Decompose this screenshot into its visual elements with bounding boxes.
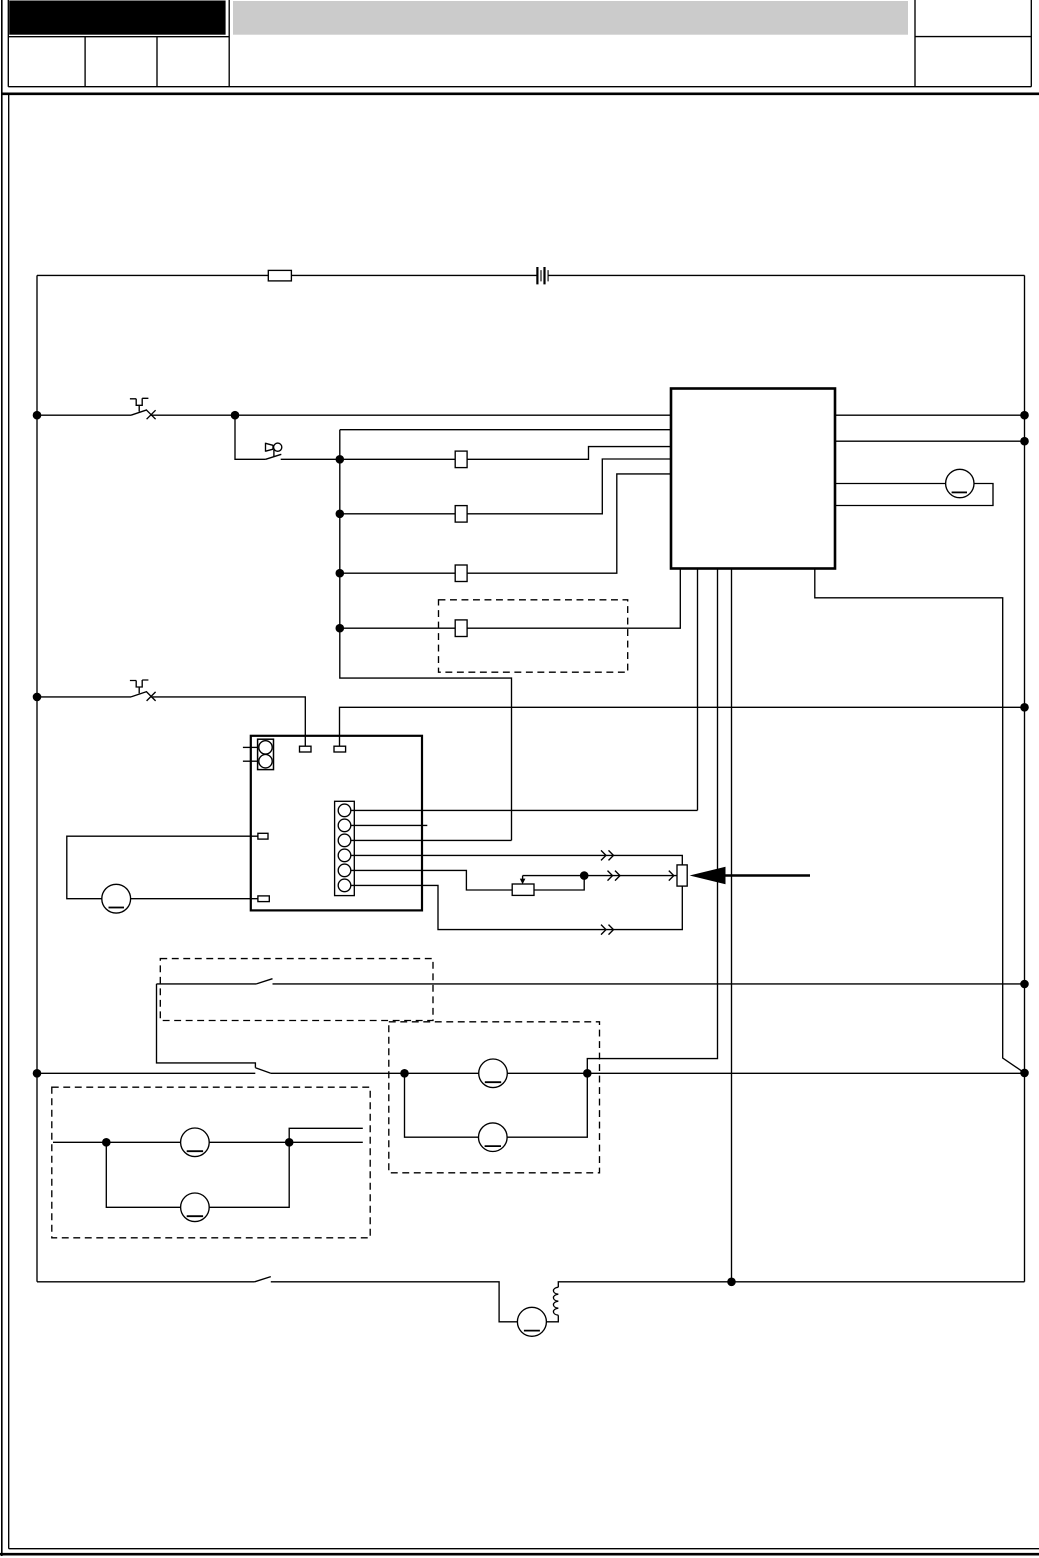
wire: horn switch to fuse bus — [281, 458, 340, 460]
wire branch 4 to ECU bottom — [340, 569, 681, 629]
wire: ECU to indicator — [835, 483, 946, 485]
wire pin3 to fuse bus — [351, 839, 512, 841]
chevron on node wire — [608, 871, 621, 881]
junction dot (339.8,513.8) — [336, 510, 345, 519]
fuse F1 — [268, 270, 291, 281]
left tab T4 — [258, 896, 269, 902]
wire: ECU jog to right bus — [815, 569, 1025, 1073]
wire: relay to lamp switch pivot — [157, 984, 256, 1068]
relay contact blade — [256, 979, 272, 984]
junction dot (1024.5,441.2) — [1020, 437, 1029, 446]
title block black banner — [9, 1, 225, 35]
wire branch 3 to ECU pin 5 — [340, 474, 671, 573]
wire: ECU pin to motor line — [731, 569, 733, 1282]
stub wire 1 — [243, 746, 258, 748]
pointer arrow line — [726, 874, 811, 877]
wire: indicator return loop — [835, 484, 993, 506]
header table grid — [8, 0, 1031, 87]
page outer border bottom — [0, 1553, 1039, 1556]
junction dot (235,415.2) — [231, 411, 240, 420]
fuse F4 — [455, 565, 467, 582]
junction dot (339.8,459.3) — [336, 455, 345, 464]
page outer border left — [1, 0, 3, 1556]
junction dot (1024.5,984) — [1020, 980, 1029, 989]
fuse F2 — [455, 451, 467, 468]
fuse F3 — [455, 506, 467, 522]
stub wire 2 — [243, 760, 258, 762]
pilot assembly box — [258, 739, 274, 769]
wire: head lamp feed — [53, 1141, 363, 1143]
dashed fuse enclosure — [439, 600, 628, 672]
junction dot (587.3,1073.3) — [583, 1069, 592, 1078]
circuit breaker CB2 — [130, 680, 156, 701]
connector pin 5 — [338, 864, 351, 877]
left bus wire — [36, 275, 38, 1281]
junction dot (404.5,1073.3) — [400, 1069, 409, 1078]
junction dot (584.2,875.6) — [580, 871, 589, 880]
battery B1 — [537, 267, 548, 284]
wire branch 1 to ECU pin 3 — [340, 447, 671, 460]
wire: left bus to breaker CB1 — [37, 414, 131, 416]
wire: ECU pin to control row 1 — [697, 569, 699, 811]
connector strip — [335, 801, 355, 895]
pilot circle 2 — [259, 755, 272, 768]
wire: head lamp jog — [289, 1128, 363, 1142]
junction dot (37,415.2) — [33, 411, 42, 420]
left tab T3 — [258, 833, 268, 839]
head lamp 2 — [181, 1193, 210, 1222]
tail lamp 1 — [479, 1059, 508, 1088]
drawing frame left — [8, 94, 10, 1549]
pointer arrow head — [690, 867, 726, 884]
terminal tab T2 — [334, 746, 346, 752]
wire head lamp branch — [106, 1142, 289, 1207]
chevron on pin6 wire — [601, 925, 614, 935]
wire: bus to lamp switch contact — [37, 1072, 255, 1074]
wire: junction to ECU pin 1 — [235, 414, 671, 416]
drawing frame bottom — [9, 1548, 1039, 1550]
wire: tail lamps to right bus — [587, 1072, 1024, 1074]
wire: CB1 to junction — [151, 414, 235, 416]
connector pin 1 — [338, 804, 351, 817]
tail lamp dashed box — [389, 1022, 600, 1173]
wire: CB2 to control module tab1 — [151, 697, 305, 746]
wire: ECU to right bus A — [835, 414, 1025, 416]
wiper wire — [523, 876, 585, 880]
wire: resistor to node — [534, 876, 584, 890]
junction dot (339.8,628.2) — [336, 624, 345, 633]
wire: left bus to breaker CB2 — [37, 696, 131, 698]
wire through tail lamp 1 — [405, 1072, 588, 1074]
wire: coil to right bus — [558, 1282, 1024, 1287]
control module U2 — [251, 736, 422, 911]
wire branch 2 to ECU pin 4 — [340, 459, 671, 514]
indicator lamp L1 — [946, 469, 974, 497]
junction dot (106.3,1142.3) — [102, 1138, 111, 1147]
chevron on pin4 wire — [601, 850, 614, 860]
wire pin2 stub — [351, 824, 428, 826]
title block gray banner — [233, 1, 908, 35]
connector pin 4 — [338, 849, 351, 862]
wire: motor to tab T4 — [131, 898, 258, 900]
connector pin 2 — [338, 819, 351, 832]
drawing frame top — [2, 93, 1039, 96]
wire: relay output to right bus — [273, 983, 1025, 985]
wire tail lamp branch — [405, 1073, 588, 1137]
wire: bus top to ECU pin 2 — [340, 429, 671, 431]
fan switch blade — [255, 1277, 271, 1282]
variable resistor R1 — [512, 884, 534, 895]
junction dot (1024.5,415.2) — [1020, 411, 1029, 420]
wire pin6 to connector J1 — [351, 885, 683, 929]
connector pin 6 — [338, 879, 351, 892]
circuit breaker CB1 — [130, 398, 156, 419]
wiper arrowhead — [520, 879, 526, 885]
wire: tab2 net to right bus — [340, 707, 1025, 746]
wire: motor to coil — [546, 1315, 558, 1322]
terminal tab T1 — [300, 746, 312, 752]
wire pin4 to connector J1 — [351, 855, 683, 865]
ECU module U1 — [671, 389, 835, 569]
junction dot (1024.5,1072.9) — [1020, 1069, 1029, 1078]
wire: switch to fan motor — [271, 1282, 518, 1322]
chevron at connector J1 — [669, 871, 674, 881]
top supply wire left of battery — [37, 274, 537, 276]
washer motor M1 — [102, 884, 131, 913]
wire: relay feed — [157, 983, 257, 985]
connector pin 3 — [338, 834, 351, 847]
junction dot (339.8,573.2) — [336, 569, 345, 578]
wire pin1 to ECU — [351, 809, 698, 811]
wire: lamp switch to tail lamps — [270, 1072, 404, 1074]
wire: washer motor loop — [67, 836, 258, 899]
pilot circle 1 — [259, 741, 272, 754]
horn switch SW1 — [266, 443, 282, 460]
junction dot (37,696.9) — [33, 693, 42, 702]
junction dot (37,1073.3) — [33, 1069, 42, 1078]
junction dot (731.5,1281.8) — [727, 1278, 736, 1287]
head lamp dashed box — [52, 1087, 370, 1238]
junction dot (289.2,1142.3) — [285, 1138, 294, 1147]
right bus wire — [1024, 275, 1026, 1281]
top supply wire right of battery — [548, 274, 1024, 276]
motor coil — [553, 1287, 558, 1315]
wire: tail lamps to ECU pin — [587, 569, 717, 1074]
wire: node to connector J1 — [584, 875, 677, 877]
connector J1 — [677, 865, 687, 886]
wire: drop to horn switch — [235, 415, 266, 459]
wire: bottom left — [37, 1281, 255, 1283]
lamp switch blade — [255, 1068, 270, 1073]
relay dashed box — [160, 959, 433, 1021]
head lamp 1 — [181, 1128, 210, 1157]
wire: ECU to right bus B — [835, 440, 1025, 442]
wire pin5 to resistor — [351, 870, 512, 890]
fuse bus wire — [340, 430, 512, 841]
fuse F5 — [455, 620, 467, 637]
tail lamp 2 — [479, 1123, 508, 1152]
junction dot (1024.5,707.3) — [1020, 703, 1029, 712]
fan motor M2 — [517, 1307, 546, 1336]
